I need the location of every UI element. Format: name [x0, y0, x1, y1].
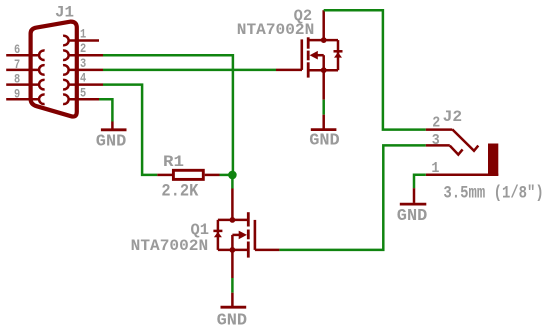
J1 pin 8 — [6, 80, 44, 89]
Q2 drain line — [308, 39, 338, 42]
J1 pin 5 — [63, 95, 99, 104]
svg-text:6: 6 — [14, 42, 20, 57]
Q2 source pin down — [322, 70, 325, 100]
svg-text:J1: J1 — [55, 4, 74, 22]
Q2 diode cathode bar — [334, 50, 343, 53]
Q2 gate bar — [300, 39, 303, 70]
Q2 gate pin — [276, 69, 302, 72]
wire J2 pin1 to GND — [414, 175, 426, 188]
Q1 body diode line — [217, 220, 220, 250]
svg-text:R1: R1 — [163, 153, 184, 171]
transistor Q2 NTA7002N — [276, 10, 343, 100]
J2 pin 3 — [426, 145, 463, 154]
Q1 source pin down — [231, 250, 234, 278]
svg-text:1: 1 — [431, 161, 439, 177]
Q1 drain junction dot — [230, 217, 236, 223]
svg-text:3: 3 — [432, 133, 440, 149]
Q2 channel dashes — [307, 37, 310, 48]
Q2 diode triangle — [334, 52, 342, 57]
J1 pin 2 — [63, 50, 103, 60]
Q2 substrate arrow head — [310, 51, 318, 60]
svg-text:2.2K: 2.2K — [161, 182, 198, 202]
ground GND (Q1) — [217, 293, 248, 330]
svg-text:GND: GND — [96, 133, 127, 152]
svg-text:4: 4 — [80, 71, 86, 86]
Q1 source line — [218, 249, 248, 252]
svg-text:7: 7 — [14, 57, 20, 72]
wire J1 pin3 to Q2 gate — [103, 69, 276, 72]
Q1 diode triangle — [214, 232, 222, 237]
svg-text:NTA7002N: NTA7002N — [237, 21, 314, 39]
svg-text:J2: J2 — [443, 108, 463, 126]
svg-text:GND: GND — [217, 311, 248, 330]
svg-text:2: 2 — [80, 41, 86, 56]
J1 pin 9 — [6, 95, 44, 104]
Q1 gate bar — [254, 220, 257, 250]
J2 pin 2 — [426, 129, 479, 150]
wire Q2 drain to J2 pin2 — [324, 10, 426, 129]
wire Q2 source to GND — [322, 100, 325, 115]
resistor R1 — [157, 170, 219, 179]
Q1 channel dashes — [247, 212, 250, 226]
wire J1 pin2 to R1 node — [103, 55, 233, 175]
svg-text:Q1: Q1 — [191, 221, 210, 239]
svg-text:NTA7002N: NTA7002N — [131, 237, 209, 255]
wire J1 pin4 to R1 left — [103, 85, 157, 175]
Q2 drain pin up — [322, 10, 325, 40]
Q1 drain pin (from node) — [231, 189, 234, 220]
svg-text:8: 8 — [14, 72, 20, 87]
J1 pin 6 — [6, 50, 44, 60]
transistor Q1 NTA7002N — [213, 189, 279, 279]
J2 tip bar — [488, 144, 498, 176]
Q1 source junction dot — [230, 247, 236, 253]
J1 pin 4 — [63, 80, 103, 89]
ground GND (J2) — [397, 188, 428, 226]
Q1 substrate arrow tail — [232, 234, 240, 237]
Q1 diode cathode bar — [213, 230, 222, 233]
Q1 gate pin — [255, 249, 280, 252]
ground GND (Q2) — [309, 115, 340, 151]
svg-text:2: 2 — [432, 115, 440, 131]
Q2 source junction dot — [321, 67, 327, 73]
node junction dot — [228, 171, 237, 180]
svg-text:9: 9 — [14, 86, 20, 101]
svg-text:3: 3 — [80, 56, 86, 71]
svg-text:1: 1 — [80, 27, 86, 42]
Q2 drain junction dot — [321, 37, 327, 43]
J1 pin 3 — [63, 65, 103, 75]
Q2 source line — [308, 69, 338, 72]
wire Q1 gate to J2 pin3 — [279, 145, 425, 250]
J2 pin 1 — [426, 174, 499, 177]
Q1 drain line — [218, 219, 248, 222]
svg-text:3.5mm (1/8″): 3.5mm (1/8″) — [443, 183, 543, 203]
connector J1 (DB9 female) body — [31, 22, 77, 117]
svg-text:GND: GND — [397, 207, 428, 226]
wire J1 pin5 to GND — [99, 99, 112, 121]
wire R1 right to node — [220, 174, 233, 177]
J1 pin 7 — [6, 65, 44, 75]
svg-text:GND: GND — [309, 132, 340, 151]
J1 pin 1 — [63, 36, 99, 46]
wire Q1 source to GND — [231, 278, 234, 293]
svg-text:5: 5 — [80, 85, 86, 100]
Q1 substrate arrow head — [239, 231, 247, 240]
wire node down to Q1 drain — [231, 175, 234, 189]
Q2 body diode line — [337, 40, 340, 70]
Q2 substrate arrow tail — [316, 54, 324, 57]
ground GND (J1) — [96, 122, 127, 152]
